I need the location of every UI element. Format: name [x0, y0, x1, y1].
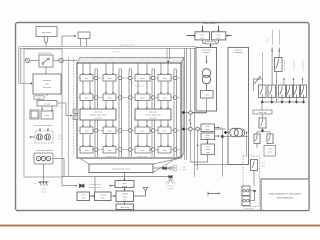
svg-text:xxxx: xxxx: [141, 97, 145, 99]
svg-text:xxxxxxxxxxxx: xxxxxxxxxxxx: [302, 60, 304, 71]
svg-text:xxxxxxxx: xxxxxxxx: [43, 80, 53, 82]
svg-text:xxxx: xxxx: [85, 97, 89, 99]
svg-text:xxxx: xxxx: [58, 136, 62, 138]
svg-text:xxxx: xxxx: [268, 149, 272, 151]
svg-text:xxxx: xxxx: [85, 78, 89, 80]
svg-text:xxx xxx: xxx xxx: [95, 118, 103, 120]
svg-text:xxxxxx xxxx xxxx: xxxxxx xxxx xxxx: [145, 115, 162, 117]
svg-text:xxxx xxx xxxxxxxxx: xxxx xxx xxxxxxxxx: [34, 125, 53, 127]
svg-text:xxxx: xxxx: [85, 150, 89, 152]
svg-text:xxxxx xxx: xxxxx xxx: [258, 112, 266, 114]
svg-text:xxx: xxx: [82, 198, 85, 200]
svg-text:xxxx: xxxx: [108, 130, 112, 132]
svg-text:xxxx: xxxx: [200, 34, 204, 36]
svg-text:xxxx: xxxx: [205, 94, 209, 96]
svg-text:xxxx: xxxx: [108, 150, 112, 152]
svg-text:xxxx: xxxx: [42, 189, 46, 191]
svg-text:xxx xxxx: xxx xxxx: [43, 87, 52, 89]
svg-text:xxxx xx: xxxx xx: [235, 50, 242, 52]
svg-text:xxxxxxxxx: xxxxxxxxx: [234, 52, 243, 54]
svg-text:xxx: xxx: [60, 90, 63, 92]
svg-text:xxx: xxx: [34, 183, 37, 185]
svg-text:xxxx: xxxx: [101, 198, 105, 200]
svg-text:xxxxxxxxxxxxxxx: xxxxxxxxxxxxxxx: [278, 30, 280, 45]
svg-text:xxxxx xxxxxxxx xx xxxx xxxxxx: xxxxx xxxxxxxx xx xxxx xxxxxx: [269, 193, 302, 196]
svg-text:xxxx: xxxx: [217, 34, 221, 36]
svg-text:xxxx: xxxx: [261, 163, 265, 165]
svg-text:xxx: xxx: [123, 199, 126, 201]
svg-text:xxxxxx: xxxxxx: [203, 52, 209, 54]
svg-text:xxx xxxxx: xxx xxxxx: [42, 32, 52, 34]
svg-text:xxxxxx xxx: xxxxxx xxx: [137, 156, 148, 158]
svg-text:xxxxxxxx x: xxxxxxxx x: [134, 86, 144, 88]
svg-text:xxxx: xxxx: [45, 115, 49, 117]
svg-text:xxxx xxx xxxxxxxx: xxxx xxx xxxxxxxx: [36, 150, 54, 152]
svg-text:xxxx xxxx: xxxx xxxx: [120, 207, 129, 209]
svg-text:xxxx: xxxx: [163, 150, 167, 152]
svg-text:xxxxx: xxxxx: [205, 138, 210, 140]
svg-text:x xxx: x xxx: [181, 166, 185, 168]
svg-text:xxxx xxxxxxx: xxxx xxxxxxx: [203, 23, 217, 25]
svg-text:xxxx: xxxx: [206, 126, 210, 128]
svg-text:xxxx xxxxxxxxx: xxxx xxxxxxxxx: [277, 197, 294, 200]
svg-text:xxxx: xxxx: [163, 97, 167, 99]
svg-text:xxxxxx: xxxxxx: [122, 194, 128, 196]
svg-text:xxxxxxxxxxxx: xxxxxxxxxxxx: [283, 60, 285, 71]
svg-text:xxx xxxx xxxx xxx: xxx xxxx xxxx xxx: [112, 169, 130, 171]
svg-text:xxx xxxx: xxx xxxx: [149, 112, 158, 114]
svg-text:xxxx: xxxx: [123, 183, 127, 185]
svg-text:xxxx: xxxx: [141, 150, 145, 152]
svg-text:xxx xxxx: xxx xxxx: [94, 112, 103, 114]
svg-text:xxxxxxxxxxxxxxx: xxxxxxxxxxxxxxx: [271, 30, 273, 45]
svg-text:xxxx: xxxx: [268, 152, 272, 154]
svg-text:xxxxx: xxxxx: [266, 38, 268, 43]
svg-text:xxxx: xxxx: [217, 37, 221, 39]
svg-text:xxxxxx: xxxxxx: [168, 188, 174, 190]
svg-text:xxxxxx xxx: xxxxxx xxx: [106, 156, 117, 158]
svg-text:xxxx: xxxx: [85, 130, 89, 132]
svg-text:xxxxx: xxxxx: [205, 149, 210, 151]
svg-text:xxxxx: xxxxx: [122, 197, 127, 199]
svg-text:xxxxxx xxxx xxxx: xxxxxx xxxx xxxx: [90, 115, 107, 117]
svg-text:xxxx: xxxx: [108, 97, 112, 99]
svg-text:xxxx: xxxx: [141, 78, 145, 80]
svg-text:xxxxx xxxx: xxxxx xxxx: [244, 208, 253, 210]
svg-text:xxx xxxx: xxx xxxx: [112, 52, 119, 54]
svg-text:xxxx: xxxx: [206, 152, 210, 154]
svg-text:xxxx: xxxx: [163, 78, 167, 80]
svg-text:xxxx: xxxx: [58, 139, 62, 141]
svg-text:xxx: xxx: [60, 106, 63, 108]
svg-text:xxxx: xxxx: [261, 165, 265, 167]
svg-text:xxxx: xxxx: [141, 130, 145, 132]
svg-text:xxxxxxxx: xxxxxxxx: [167, 185, 175, 187]
svg-text:xxxxxx: xxxxxx: [41, 192, 47, 194]
svg-text:xxxxx: xxxxx: [205, 129, 210, 131]
svg-text:A: A: [189, 118, 191, 122]
svg-text:xxxxxx: xxxxxx: [181, 169, 187, 171]
svg-text:xxxxxxxxxxxx: xxxxxxxxxxxx: [293, 60, 295, 71]
svg-text:xxxxxxxx xxxx: xxxxxxxx xxxx: [89, 187, 102, 189]
svg-text:xxxx: xxxx: [108, 78, 112, 80]
svg-text:xxxx: xxxx: [163, 130, 167, 132]
svg-text:xxxx: xxxx: [206, 147, 210, 149]
svg-text:xxxx xxxx: xxxx xxxx: [202, 50, 211, 52]
svg-text:xx xxx: xx xxx: [44, 104, 51, 106]
svg-text:xxxx: xxxx: [200, 37, 204, 39]
svg-text:xxx xxx: xxx xxx: [150, 118, 158, 120]
svg-text:xxxx xxxx xxxx: xxxx xxxx xxxx: [38, 53, 53, 55]
svg-text:xxxxxxx xxxx: xxxxxxx xxxx: [89, 184, 101, 186]
svg-text:xxxx xxxx xxxx: xxxx xxxx xxxx: [120, 44, 135, 46]
svg-text:xxx: xxx: [82, 195, 85, 197]
svg-text:xxxxxx: xxxxxx: [100, 195, 106, 197]
